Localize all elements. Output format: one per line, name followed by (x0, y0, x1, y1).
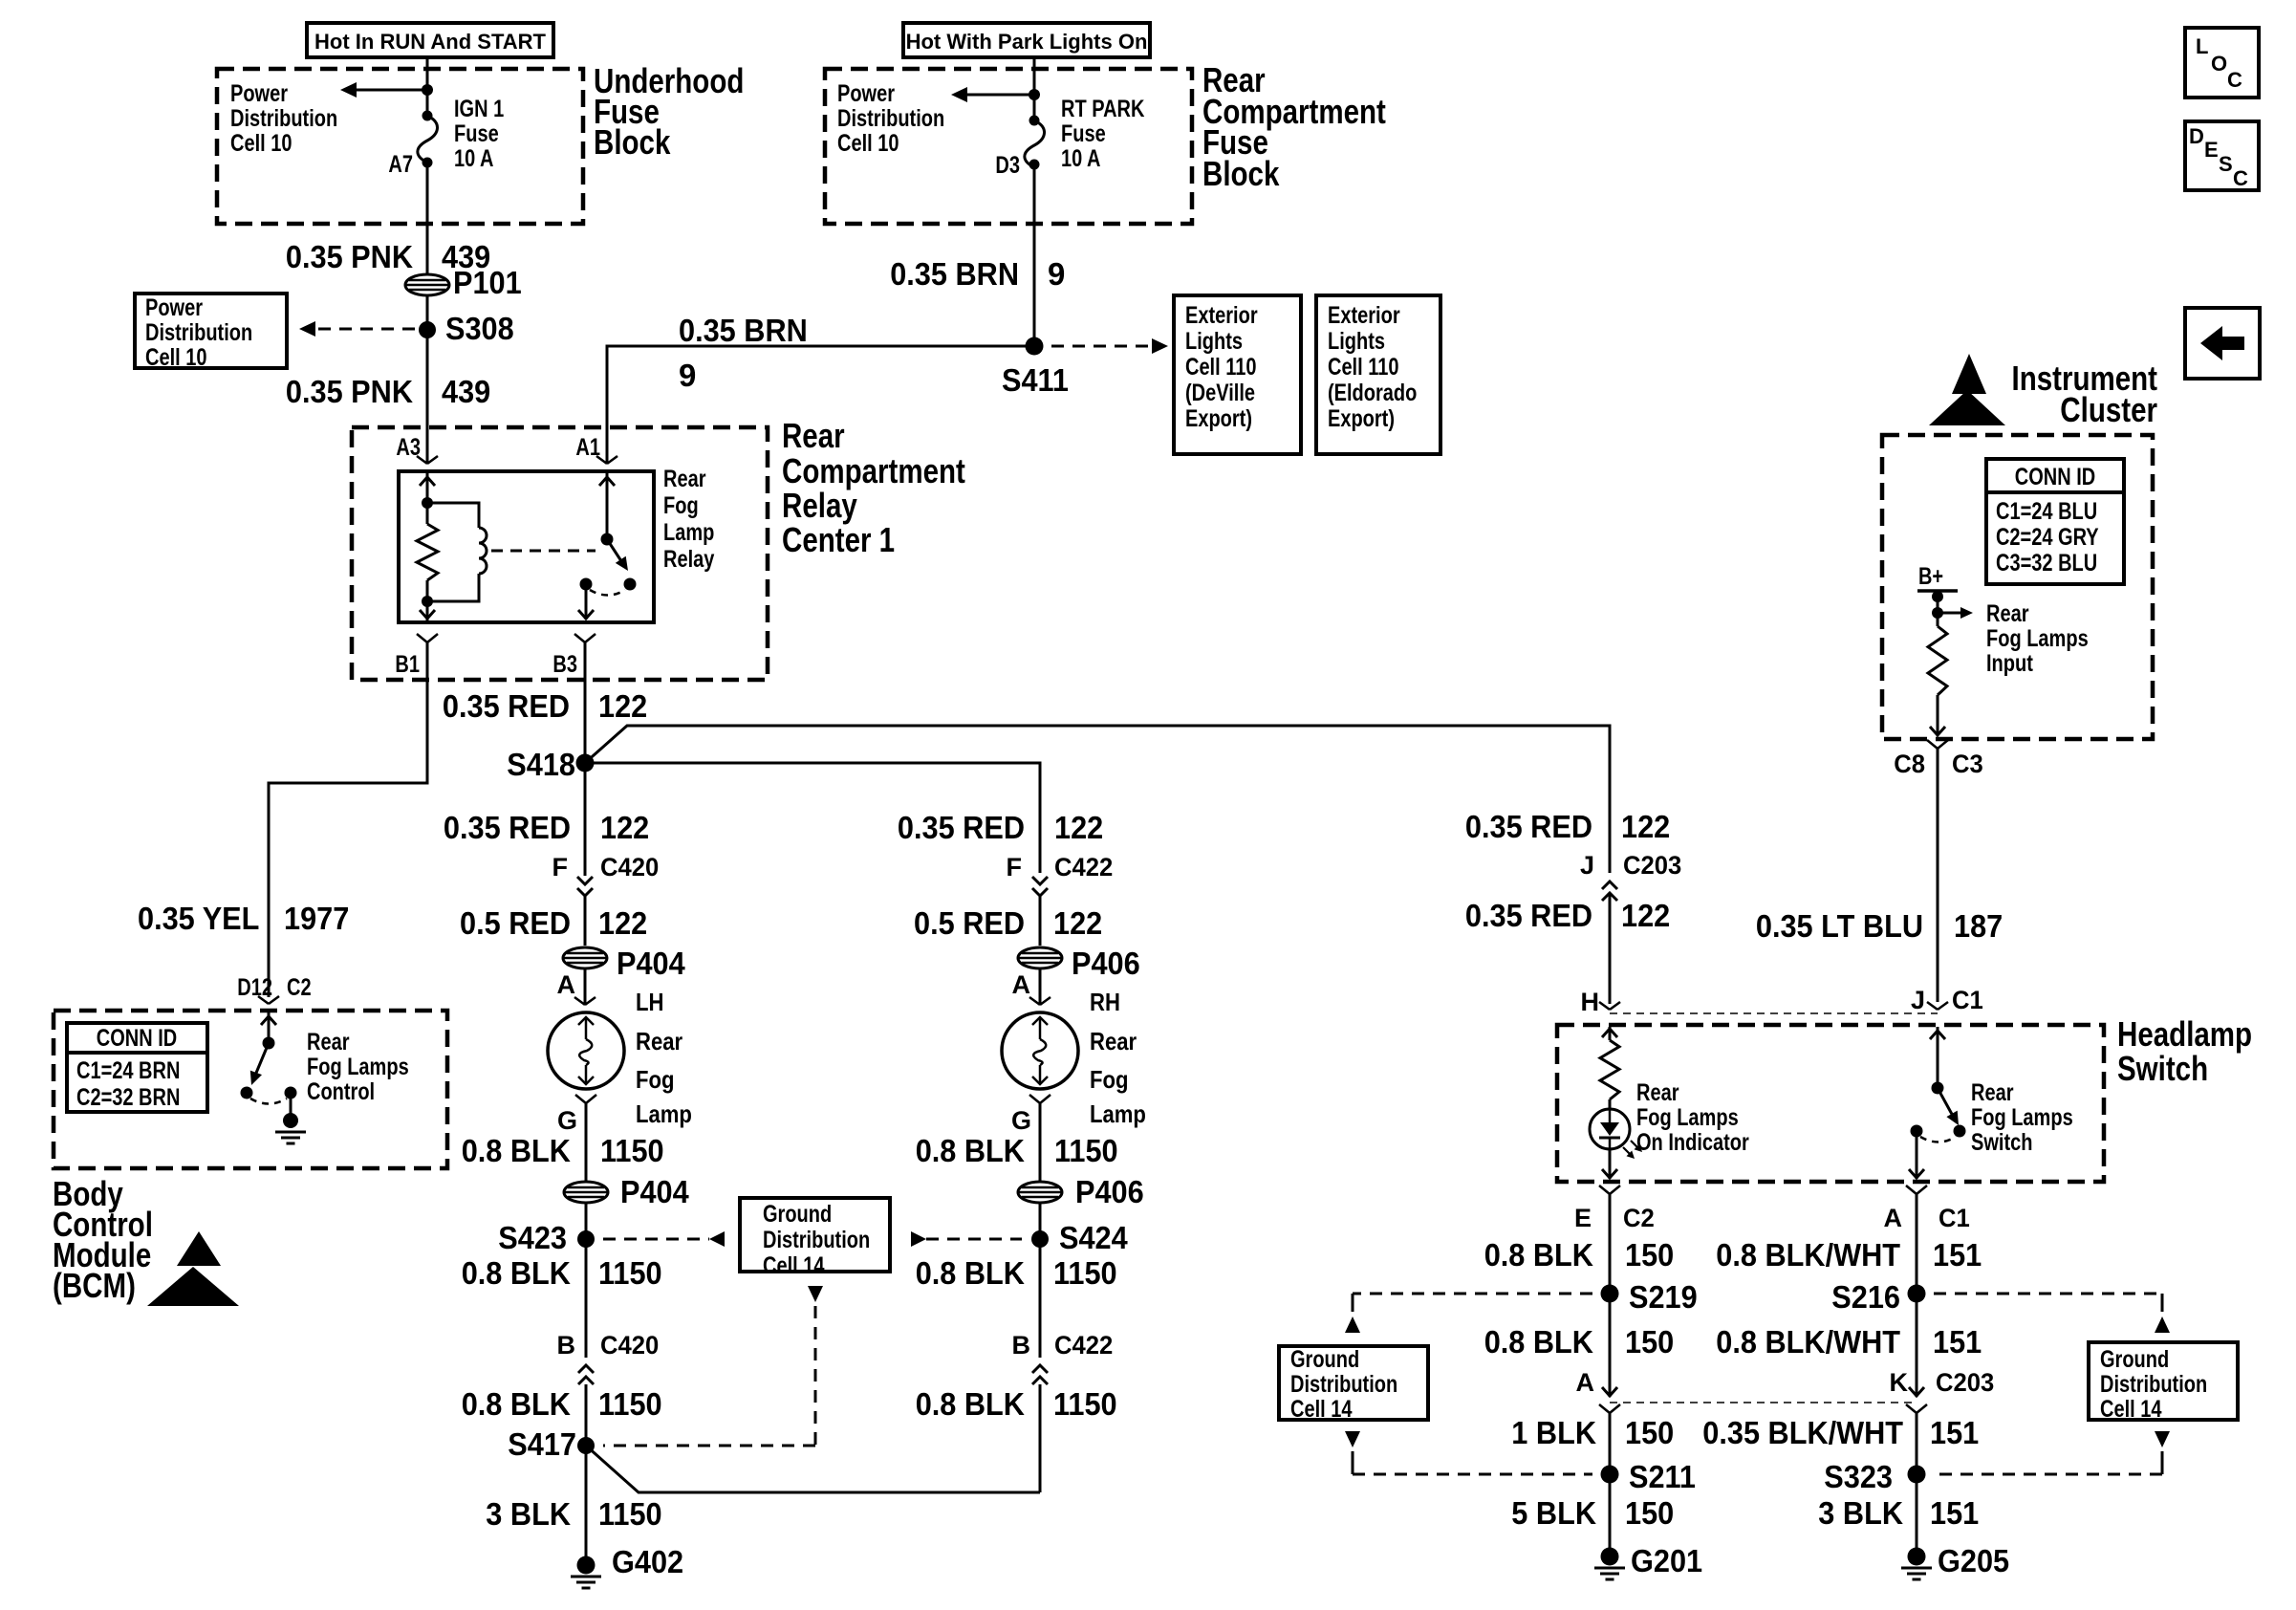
splice S417 (508, 1426, 595, 1462)
svg-text:Compartment: Compartment (782, 451, 965, 490)
ESD symbol instrument cluster (1929, 354, 2005, 425)
svg-text:1977: 1977 (284, 901, 349, 936)
pin K C203 label (1890, 1368, 1995, 1397)
splice S308 (419, 311, 514, 346)
svg-text:C8: C8 (1894, 750, 1925, 778)
svg-text:(BCM): (BCM) (53, 1266, 136, 1305)
svg-text:Lamp: Lamp (663, 519, 714, 546)
wire label 0.35 BRN 9 (horizontal) (679, 313, 808, 393)
svg-text:A7: A7 (388, 151, 413, 178)
splice S424 (1031, 1220, 1128, 1255)
svg-text:P404: P404 (617, 946, 685, 981)
text Power Distribution Cell 10 (underhood) (230, 80, 337, 157)
splice S323 (1824, 1459, 1925, 1494)
svg-text:0.35 RED: 0.35 RED (443, 688, 570, 724)
svg-text:(Eldorado: (Eldorado (1328, 380, 1417, 406)
lamp pin G connector (RH) (1011, 1095, 1051, 1135)
LED D1 rear fog lamps on indicator (1590, 1109, 1642, 1159)
svg-text:P406: P406 (1075, 1174, 1144, 1209)
wire label 0.8 BLK 1150 (LH middle) (462, 1255, 662, 1291)
svg-text:C1=24 BLU: C1=24 BLU (1996, 498, 2097, 525)
wire S219 to C203 pin A (0.8 BLK 150) (1602, 1294, 1617, 1397)
splice S216 (1831, 1279, 1925, 1315)
svg-text:Distribution: Distribution (145, 319, 252, 346)
svg-text:Fog: Fog (636, 1065, 675, 1094)
svg-text:0.8 BLK: 0.8 BLK (462, 1133, 571, 1168)
svg-text:Headlamp: Headlamp (2117, 1014, 2252, 1054)
wire label 0.35 LT BLU 187 (1756, 908, 2003, 944)
svg-text:Rear: Rear (663, 466, 706, 492)
wire S211 to G201 (5 BLK 150) (1609, 1474, 1612, 1556)
rear compartment fuse block dashed box (825, 69, 1192, 224)
BCM CONN ID box (67, 1023, 207, 1112)
DESC reference box (2185, 121, 2259, 190)
indicator resistor (1600, 1040, 1619, 1099)
svg-text:S: S (2219, 152, 2233, 176)
connector P101 grommet (405, 265, 522, 300)
svg-text:S423: S423 (498, 1220, 567, 1255)
svg-text:150: 150 (1625, 1324, 1674, 1360)
svg-text:1150: 1150 (598, 1255, 662, 1291)
arrow to Power Distribution Cell 10 (underhood) (340, 82, 427, 98)
wire C420 B to S417 (0.8 BLK 1150) (585, 1384, 588, 1446)
svg-text:D3: D3 (995, 152, 1020, 179)
svg-text:Block: Block (594, 122, 671, 162)
svg-text:C2: C2 (287, 974, 312, 1001)
relay U1 rear fog lamp relay box (399, 471, 654, 622)
wire from Hot In RUN And START into fuse block (426, 57, 429, 116)
svg-text:C422: C422 (1054, 1331, 1113, 1360)
svg-text:A: A (1884, 1204, 1903, 1232)
svg-text:Exterior: Exterior (1185, 302, 1258, 329)
svg-text:B1: B1 (395, 651, 420, 678)
wire resistor to cluster pin C8 with arrow (1930, 695, 1945, 735)
svg-text:1150: 1150 (1054, 1133, 1118, 1168)
svg-text:Exterior: Exterior (1328, 302, 1400, 329)
svg-text:J: J (1580, 851, 1594, 880)
underhood fuse block dashed box (217, 69, 583, 224)
svg-text:Distribution: Distribution (230, 105, 337, 132)
svg-text:P101: P101 (453, 265, 522, 300)
switch S1 feed wire with arrow (1930, 1027, 1945, 1088)
svg-text:IGN 1: IGN 1 (454, 96, 504, 122)
node junction at top of RT PARK fuse (1029, 89, 1040, 100)
wire C422 to P406 (0.5 RED 122) (1039, 894, 1042, 946)
svg-text:On Indicator: On Indicator (1636, 1129, 1749, 1156)
svg-text:Block: Block (1202, 154, 1280, 193)
svg-text:G205: G205 (1938, 1543, 2009, 1578)
svg-text:S219: S219 (1629, 1279, 1698, 1315)
svg-text:Rear: Rear (1986, 600, 2029, 627)
wire C203 J to headlamp switch pin H (1609, 893, 1612, 1004)
connector C422 pin F (1007, 853, 1114, 896)
svg-text:E: E (1574, 1204, 1592, 1232)
svg-text:0.5 RED: 0.5 RED (460, 905, 571, 941)
dashed arrow S411 to Exterior Lights (1051, 338, 1168, 354)
relay switch output wire with arrow (578, 584, 594, 620)
wire label 3 BLK 151 (row4) (1818, 1495, 1979, 1531)
svg-text:151: 151 (1930, 1415, 1979, 1450)
svg-text:Hot In RUN And START: Hot In RUN And START (314, 30, 547, 54)
underhood fuse block name (594, 61, 744, 162)
svg-text:A: A (1012, 970, 1031, 999)
connector C420 pin F (552, 853, 660, 896)
wire C422 B down to ground run (0.8 BLK 1150) (1039, 1384, 1042, 1492)
text Rear Fog Lamps Control (307, 1029, 409, 1105)
svg-text:C203: C203 (1936, 1368, 1994, 1397)
svg-text:0.8 BLK/WHT: 0.8 BLK/WHT (1716, 1237, 1900, 1273)
svg-text:B: B (557, 1331, 576, 1360)
lamp pin G connector (LH) (557, 1095, 596, 1135)
switch S1 dashed throw arc (1920, 1137, 1956, 1142)
connector C203 pin A exit (1599, 1404, 1620, 1474)
svg-text:K: K (1890, 1368, 1909, 1397)
body control module dashed box (54, 1011, 447, 1168)
LOC reference box (2185, 28, 2259, 98)
relay coil output wire with arrow (420, 601, 435, 622)
svg-text:G: G (557, 1106, 577, 1135)
svg-text:5 BLK: 5 BLK (1511, 1495, 1596, 1531)
svg-text:0.35 RED: 0.35 RED (898, 810, 1025, 845)
svg-text:Fog Lamps: Fog Lamps (307, 1054, 409, 1080)
wire P406 to S424 (1039, 1204, 1042, 1239)
svg-text:0.5 RED: 0.5 RED (914, 905, 1025, 941)
relay switch dashed throw arc (590, 590, 625, 596)
connector C203 pin K exit (1906, 1404, 1927, 1474)
svg-text:Fuse: Fuse (454, 120, 499, 147)
connector face dashed line A to K (1610, 1402, 1917, 1403)
wire LED to pin E with arrow (1602, 1149, 1617, 1179)
wire B+ to resistor (1937, 591, 1939, 626)
wire from Hot With Park Lights On into fuse block (1033, 57, 1036, 120)
svg-text:0.8 BLK/WHT: 0.8 BLK/WHT (1716, 1324, 1900, 1360)
svg-text:C1: C1 (1939, 1204, 1970, 1232)
svg-text:G: G (1011, 1106, 1031, 1135)
svg-text:0.35 YEL: 0.35 YEL (138, 901, 259, 936)
svg-text:1 BLK: 1 BLK (1511, 1415, 1596, 1450)
wire label 0.8 BLK 1150 (LH lower) (462, 1386, 662, 1422)
wire B1 to BCM pin D12 (0.35 YEL 1977) (269, 642, 427, 997)
svg-text:0.8 BLK: 0.8 BLK (1484, 1237, 1593, 1273)
wire label 0.8 BLK 150 (row1) (1484, 1237, 1675, 1273)
pin D3 label (995, 152, 1020, 179)
wire S418 to RH chain (0.35 RED 122) (585, 763, 1040, 873)
svg-text:Cell 14: Cell 14 (2100, 1396, 2162, 1423)
svg-text:Center 1: Center 1 (782, 520, 895, 559)
text Rear Fog Lamps On Indicator (1636, 1079, 1749, 1156)
ground distribution cell 14 box (middle) (740, 1198, 890, 1279)
svg-text:0.35 BRN: 0.35 BRN (679, 313, 808, 348)
BCM internal ground (275, 1093, 306, 1143)
wire P404 to lamp pin A (584, 968, 587, 1005)
svg-text:Cell 10: Cell 10 (230, 130, 292, 157)
svg-text:Export): Export) (1185, 405, 1252, 432)
svg-text:Hot With Park Lights On: Hot With Park Lights On (906, 30, 1148, 54)
headlamp switch pin A C1 connector (1884, 1186, 1970, 1232)
svg-text:A1: A1 (575, 434, 600, 461)
pin D12 C2 connector (237, 974, 311, 1004)
svg-text:RH: RH (1090, 988, 1120, 1016)
svg-text:S411: S411 (1002, 362, 1069, 398)
wire label 3 BLK 1150 (486, 1496, 661, 1532)
wire pin E to S219 (0.8 BLK 150) (1609, 1194, 1612, 1294)
svg-text:E: E (2204, 138, 2219, 162)
svg-text:Lamp: Lamp (1090, 1099, 1146, 1128)
svg-text:Rear: Rear (1636, 1079, 1679, 1106)
wire A7 to P101 (0.35 PNK 439) (426, 163, 429, 274)
svg-text:A: A (557, 970, 576, 999)
BCM name (53, 1174, 153, 1305)
wire lamp G to P406 (0.8 BLK 1150) (1039, 1103, 1042, 1182)
svg-text:Lamp: Lamp (636, 1099, 692, 1128)
lamp pin A connector (RH) (1012, 970, 1051, 1005)
svg-text:C1=24 BRN: C1=24 BRN (76, 1057, 180, 1084)
cluster input resistor (1928, 626, 1947, 695)
exterior lights cell 110 DeVille box (1174, 295, 1301, 454)
dashed arrow S308 to Power Distribution box (299, 321, 415, 337)
svg-text:Rear: Rear (782, 416, 845, 455)
svg-text:0.8 BLK: 0.8 BLK (916, 1255, 1025, 1291)
svg-text:Switch: Switch (2117, 1049, 2208, 1088)
lamp name RH Rear Fog Lamp (1090, 988, 1146, 1128)
headlamp switch pin H connector (1581, 988, 1621, 1016)
wire label 0.35 PNK 439 (lower) (286, 374, 490, 409)
dashed wire left ground distribution box to S211 (1345, 1431, 1592, 1474)
text Rear Fog Lamps Switch (1971, 1079, 2073, 1156)
ground G205 (1901, 1543, 2009, 1579)
wire label 0.35 RED 122 (LH) (444, 810, 649, 845)
wire B3 to S418 (0.35 RED 122) (584, 642, 587, 763)
svg-text:C420: C420 (600, 853, 659, 881)
svg-text:Ground: Ground (1290, 1346, 1359, 1373)
connector C420 pin B (557, 1331, 660, 1384)
wire S417 to RH ground chain (586, 1446, 1040, 1492)
svg-text:9: 9 (1048, 256, 1065, 292)
node junction at top of IGN 1 fuse (422, 84, 433, 96)
svg-text:122: 122 (1621, 898, 1670, 933)
svg-text:P404: P404 (620, 1174, 689, 1209)
wire label 0.35 RED 122 (lower H) (1465, 898, 1670, 933)
ground G201 (1594, 1543, 1702, 1579)
switch S1 arm (1938, 1088, 1959, 1125)
ESD symbol BCM (147, 1231, 239, 1306)
svg-text:Export): Export) (1328, 405, 1395, 432)
cluster CONN ID box (1986, 459, 2124, 584)
wire label 5 BLK 150 (row4) (1511, 1495, 1674, 1531)
svg-text:3 BLK: 3 BLK (1818, 1495, 1903, 1531)
svg-text:122: 122 (600, 810, 649, 845)
lamp E1 LH rear fog lamp (548, 1012, 624, 1089)
pin A label (C203 left) (1576, 1368, 1595, 1397)
headlamp switch pin J C1 connector (1911, 986, 1983, 1014)
BCM rear fog lamps control switch (241, 1011, 297, 1104)
svg-text:C: C (2233, 166, 2248, 190)
fuse RT PARK 10 A (1025, 116, 1045, 170)
B+ supply symbol (1917, 563, 1958, 602)
arrow to Power Distribution Cell 10 (rear) (951, 87, 1034, 102)
svg-text:122: 122 (1054, 810, 1103, 845)
svg-text:L: L (2196, 34, 2208, 58)
node rear fog lamps input branch (1932, 607, 1973, 619)
svg-text:10 A: 10 A (454, 145, 494, 172)
svg-text:0.35 BLK/WHT: 0.35 BLK/WHT (1702, 1415, 1903, 1450)
svg-text:B: B (1012, 1331, 1031, 1360)
fuse IGN 1 label (454, 96, 504, 172)
svg-text:C2=32 BRN: C2=32 BRN (76, 1084, 180, 1111)
dashed wire right ground distribution box to S323 (1934, 1431, 2170, 1474)
svg-text:10 A: 10 A (1061, 145, 1101, 172)
pin B1 connector (395, 634, 438, 678)
svg-text:C1: C1 (1952, 986, 1983, 1014)
svg-text:S323: S323 (1824, 1459, 1893, 1494)
svg-text:Power: Power (145, 294, 203, 321)
dashed wire S423 to ground distribution box (603, 1231, 725, 1247)
svg-text:Cell 110: Cell 110 (1328, 354, 1399, 381)
relay switch pivot (601, 533, 614, 546)
svg-text:0.8 BLK: 0.8 BLK (916, 1386, 1025, 1422)
svg-text:Lights: Lights (1185, 328, 1243, 355)
svg-text:RT PARK: RT PARK (1061, 96, 1144, 122)
svg-text:Cell 10: Cell 10 (145, 344, 207, 371)
instrument cluster dashed box (1882, 435, 2153, 739)
wire label 0.35 RED 122 (RH) (898, 810, 1103, 845)
wire S418 to headlamp switch pin H (0.35 RED 122) (585, 726, 1610, 873)
wire resistor to LED (1609, 1099, 1612, 1109)
wire pin A to S216 (0.8 BLK/WHT 151) (1916, 1194, 1918, 1294)
svg-text:1150: 1150 (1053, 1386, 1117, 1422)
svg-text:Fuse: Fuse (1061, 120, 1106, 147)
svg-text:(DeVille: (DeVille (1185, 380, 1255, 406)
svg-text:0.35 RED: 0.35 RED (444, 810, 571, 845)
svg-text:122: 122 (1053, 905, 1102, 941)
wire D3 to S411 (0.35 BRN 9) (1033, 164, 1036, 346)
connector face dashed line H to J (1610, 1012, 1938, 1014)
svg-text:9: 9 (679, 358, 696, 393)
wire P101 to S308 (426, 295, 429, 330)
svg-text:1150: 1150 (1053, 1255, 1117, 1291)
svg-text:S216: S216 (1831, 1279, 1900, 1315)
svg-text:0.35 PNK: 0.35 PNK (286, 239, 413, 274)
wire S418 down to C420 (0.35 RED 122) (584, 763, 587, 876)
wire label 0.8 BLK 1150 (RH upper) (916, 1133, 1118, 1168)
svg-text:D: D (2189, 124, 2204, 148)
svg-text:151: 151 (1930, 1495, 1979, 1531)
wire C420 to P404 (0.5 RED 122) (584, 894, 587, 946)
pin A7 label (388, 151, 413, 178)
relay coil bottom node (422, 596, 433, 607)
fuse RT PARK label (1061, 96, 1144, 172)
svg-text:0.35 RED: 0.35 RED (1465, 809, 1592, 844)
pin A3 connector (396, 434, 438, 464)
svg-text:A: A (1576, 1368, 1595, 1397)
svg-text:0.35 RED: 0.35 RED (1465, 898, 1592, 933)
svg-text:Relay: Relay (663, 546, 714, 573)
svg-text:Distribution: Distribution (2100, 1371, 2207, 1398)
svg-text:Control: Control (307, 1078, 375, 1105)
svg-text:B+: B+ (1918, 563, 1943, 590)
svg-text:C2: C2 (1623, 1204, 1655, 1232)
wire label 0.35 RED 122 (upper H) (1465, 809, 1670, 844)
lamp name LH Rear Fog Lamp (636, 988, 692, 1128)
connector P404 grommet (lower) (564, 1174, 689, 1209)
svg-text:G402: G402 (612, 1544, 683, 1579)
pin B3 connector (552, 634, 596, 678)
wire label 0.35 BLK/WHT 151 (row3) (1702, 1415, 1979, 1450)
connector C422 pin B (1012, 1331, 1114, 1384)
svg-text:LH: LH (636, 988, 664, 1016)
relay coil input wire with arrow (420, 471, 435, 503)
net label box Hot With Park Lights On (903, 23, 1150, 57)
svg-text:C3=32 BLU: C3=32 BLU (1996, 550, 2097, 577)
svg-text:C3: C3 (1952, 750, 1983, 778)
relay switch arm (607, 539, 628, 571)
svg-text:Cell 14: Cell 14 (763, 1252, 825, 1279)
dashed wire S219 to left ground distribution box (1345, 1294, 1592, 1333)
wire S323 to G205 (3 BLK 151) (1916, 1474, 1918, 1556)
wire S216 to C203 pin K (0.8 BLK/WHT 151) (1909, 1294, 1924, 1397)
svg-text:1150: 1150 (598, 1386, 662, 1422)
svg-text:Fog Lamps: Fog Lamps (1636, 1104, 1739, 1131)
svg-text:S417: S417 (508, 1426, 576, 1462)
svg-text:S424: S424 (1059, 1220, 1128, 1255)
wire label 0.8 BLK/WHT 151 (row2) (1716, 1324, 1982, 1360)
indicator feed wire with arrow (1602, 1027, 1617, 1040)
relay switch contact node (580, 578, 593, 591)
power distribution cell 10 box (left) (135, 294, 287, 371)
relay name label (663, 466, 714, 573)
svg-text:C203: C203 (1623, 851, 1681, 880)
splice S411 (1002, 337, 1069, 399)
switch S1 pivot (1932, 1082, 1944, 1095)
wire S417 to G402 (3 BLK 1150) (585, 1446, 588, 1565)
splice S211 (1601, 1459, 1697, 1494)
wire label 0.8 BLK/WHT 151 (row1) (1716, 1237, 1982, 1273)
splice S219 (1601, 1279, 1698, 1315)
svg-text:Power: Power (230, 80, 288, 107)
connector C203 pin J (1580, 851, 1681, 901)
wire label 1 BLK 150 (row3) (1511, 1415, 1674, 1450)
svg-text:S211: S211 (1629, 1459, 1696, 1494)
headlamp switch dashed box (1557, 1025, 2104, 1182)
wire label 0.8 BLK 1150 (RH lower) (916, 1386, 1117, 1422)
svg-text:Fog Lamps: Fog Lamps (1971, 1104, 2073, 1131)
svg-text:Switch: Switch (1971, 1129, 2033, 1156)
wire label 0.8 BLK 1150 (RH middle) (916, 1255, 1117, 1291)
svg-text:C420: C420 (600, 1331, 659, 1360)
svg-text:150: 150 (1625, 1415, 1674, 1450)
dashed wire ground distribution box to S424 (911, 1231, 1022, 1247)
svg-text:0.35 LT BLU: 0.35 LT BLU (1756, 908, 1923, 944)
wire label 0.8 BLK 150 (row2) (1484, 1324, 1675, 1360)
svg-text:Distribution: Distribution (763, 1227, 870, 1253)
wire S424 to C422 pin B (0.8 BLK 1150) (1039, 1239, 1042, 1358)
lamp pin A connector (LH) (557, 970, 596, 1005)
wire C3 to headlamp switch pin J (0.35 LT BLU 187) (1937, 749, 1939, 1002)
connector P406 grommet (upper) (1018, 946, 1140, 981)
wire label 0.35 PNK 439 (upper) (286, 239, 490, 274)
wire S308 to pin A3 (426, 330, 429, 464)
svg-text:Cell 110: Cell 110 (1185, 354, 1257, 381)
svg-text:0.8 BLK: 0.8 BLK (916, 1133, 1025, 1168)
wire lamp G to P404 (0.8 BLK 1150) (585, 1103, 588, 1182)
cluster pin C8 C3 connector (1894, 740, 1983, 778)
svg-text:Fog: Fog (663, 492, 699, 519)
connector P404 grommet (upper) (563, 946, 685, 981)
wire label 0.5 RED 122 (LH) (460, 905, 647, 941)
svg-text:S308: S308 (445, 311, 514, 346)
svg-text:0.8 BLK: 0.8 BLK (1484, 1324, 1593, 1360)
svg-text:A3: A3 (396, 434, 421, 461)
